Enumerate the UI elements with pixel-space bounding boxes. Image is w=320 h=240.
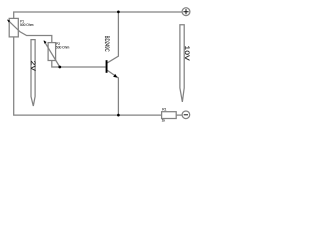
svg-text:500 Ohm: 500 Ohm (20, 23, 34, 27)
svg-text:2V: 2V (29, 61, 37, 72)
svg-text:R1: R1 (162, 108, 166, 112)
svg-text:BD249C: BD249C (103, 36, 110, 52)
svg-text:500 Ohm: 500 Ohm (56, 45, 70, 49)
svg-text:1k: 1k (162, 118, 166, 122)
svg-text:10V: 10V (183, 46, 191, 61)
